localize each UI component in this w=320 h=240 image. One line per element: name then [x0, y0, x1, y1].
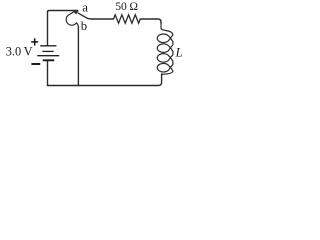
- resistor 50 ohm zigzag: [114, 15, 141, 23]
- battery plate short 2: [42, 50, 53, 52]
- wire: bottom rail: [48, 74, 162, 86]
- svg-text:a: a: [82, 0, 88, 15]
- wire: battery positive lead up and right to switch contact a: [48, 11, 78, 46]
- wire: resistor to top-right corner, down to inductor: [140, 19, 161, 23]
- plus terminal sign: [31, 38, 38, 45]
- battery plate long 1: [40, 45, 56, 47]
- svg-text:3.0 V: 3.0 V: [6, 45, 33, 59]
- svg-text:50: 50: [115, 0, 127, 13]
- wire: switch arm from contact a sloping down to resistor: [78, 13, 113, 19]
- battery plate long 3: [37, 55, 59, 57]
- switch arrowhead at contact a: [73, 11, 79, 14]
- inductor L coil: [157, 22, 173, 75]
- switch throw arc from b to a: [66, 11, 78, 27]
- wire: contact b branch down to bottom rail: [77, 27, 79, 86]
- svg-text:L: L: [175, 46, 183, 60]
- minus terminal sign: [31, 63, 40, 65]
- svg-text:b: b: [81, 19, 87, 33]
- wire: battery negative lead down: [47, 60, 49, 85]
- svg-text:Ω: Ω: [129, 0, 138, 13]
- battery plate short 4 thick: [43, 59, 55, 61]
